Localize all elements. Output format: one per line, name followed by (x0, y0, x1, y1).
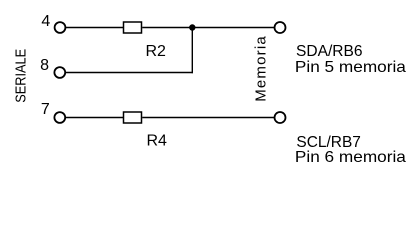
resistor R4 (124, 112, 142, 123)
svg-text:Memoria: Memoria (253, 36, 270, 102)
pin 8 terminal (54, 67, 65, 78)
wire vertical from pin8 line up to junction (191, 28, 193, 74)
pin 4 terminal (55, 22, 66, 33)
wire R2 to SDA terminal (142, 27, 274, 29)
junction dot (189, 24, 195, 30)
wire pin8 to vertical (65, 72, 193, 74)
svg-text:SERIALE: SERIALE (12, 49, 29, 103)
svg-text:8: 8 (40, 57, 49, 74)
svg-text:Pin 5 memoria: Pin 5 memoria (295, 59, 406, 76)
terminal SCL/RB7 (275, 112, 286, 123)
svg-text:SDA/RB6: SDA/RB6 (296, 43, 363, 60)
svg-text:Pin 6 memoria: Pin 6 memoria (295, 149, 406, 166)
resistor R2 (124, 22, 142, 33)
terminal SDA/RB6 (275, 22, 286, 33)
wire pin7 to R4 (65, 117, 123, 119)
pin 7 terminal (54, 112, 65, 123)
svg-text:4: 4 (41, 13, 50, 30)
wire pin4 to R2 (66, 27, 124, 29)
svg-text:7: 7 (41, 101, 50, 118)
svg-text:R4: R4 (147, 132, 168, 149)
wire R4 to SCL terminal (142, 117, 274, 119)
svg-text:R2: R2 (146, 43, 167, 60)
